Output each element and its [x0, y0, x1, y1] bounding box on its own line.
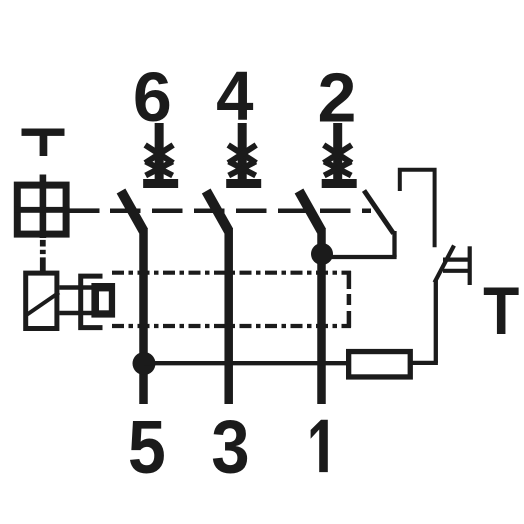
pole 1 conductor — [139, 228, 148, 404]
test button actuator link (lower) — [443, 269, 471, 273]
terminal 6 (plug-in terminal symbol) — [143, 123, 178, 188]
pole 3 switch blade (2-1) — [299, 191, 322, 231]
secondary winding bracket — [81, 276, 103, 328]
pole 3 conductor — [317, 228, 326, 404]
junction node on pole 1 — [133, 352, 156, 375]
test button contact blade — [435, 246, 455, 283]
trip relay diagonal — [26, 293, 60, 316]
CT core boundary (dash-dot) top — [112, 271, 351, 275]
terminal 2 label — [318, 58, 357, 136]
CT core boundary (dash-dot) bottom — [112, 324, 351, 328]
test resistor — [349, 352, 411, 377]
mechanical linkage (dashed line) — [110, 208, 371, 213]
pole 2 switch blade (4-3) — [206, 191, 229, 231]
wire: test blade pivot down — [392, 231, 396, 257]
terminal 5 label — [128, 406, 166, 490]
label T (test mechanism, top-left) — [22, 129, 65, 157]
wire: button to resistor — [434, 281, 438, 363]
pole 1 switch blade (6-5) — [121, 191, 144, 231]
wire: relay to secondary winding (lower) — [59, 311, 93, 316]
svg-text:T: T — [483, 272, 519, 349]
test button actuator link (upper) — [443, 258, 471, 262]
core window (winding on core) — [91, 283, 115, 318]
transformer square horizontal cross bar — [14, 207, 70, 213]
terminal 4 (plug-in terminal symbol) — [226, 123, 261, 188]
transformer square (test winding core) — [17, 185, 66, 234]
svg-text:6: 6 — [133, 58, 172, 136]
pole 2 conductor — [224, 228, 233, 404]
terminal 3 label — [211, 406, 249, 489]
svg-text:4: 4 — [216, 57, 253, 136]
svg-text:3: 3 — [211, 406, 249, 489]
CT core boundary (dash-dot) right — [347, 271, 352, 328]
terminal 1 label — [311, 420, 328, 472]
label T (test button, right) — [483, 272, 519, 349]
wire: test tap to pole 3 node — [330, 255, 397, 259]
wire: resistor to button wire — [410, 361, 438, 365]
wire: relay to secondary winding (upper) — [59, 285, 93, 290]
test button actuator bar — [468, 246, 472, 285]
wire: vertical link into transformer square — [40, 175, 47, 239]
wire: pole 1 node to resistor — [144, 361, 348, 365]
svg-text:5: 5 — [128, 406, 166, 490]
wire: dashed trip link below square — [40, 240, 46, 271]
terminal 6 label — [133, 58, 172, 136]
wire: from square to dashed linkage — [66, 208, 100, 213]
test switch blade — [364, 191, 394, 234]
wire: hook to test button fixed contact — [400, 170, 435, 248]
trip relay (residual current release) — [26, 273, 57, 328]
terminal 4 label — [216, 57, 253, 136]
terminal 2 (plug-in terminal symbol) — [322, 123, 357, 188]
junction node on pole 3 — [311, 243, 333, 265]
